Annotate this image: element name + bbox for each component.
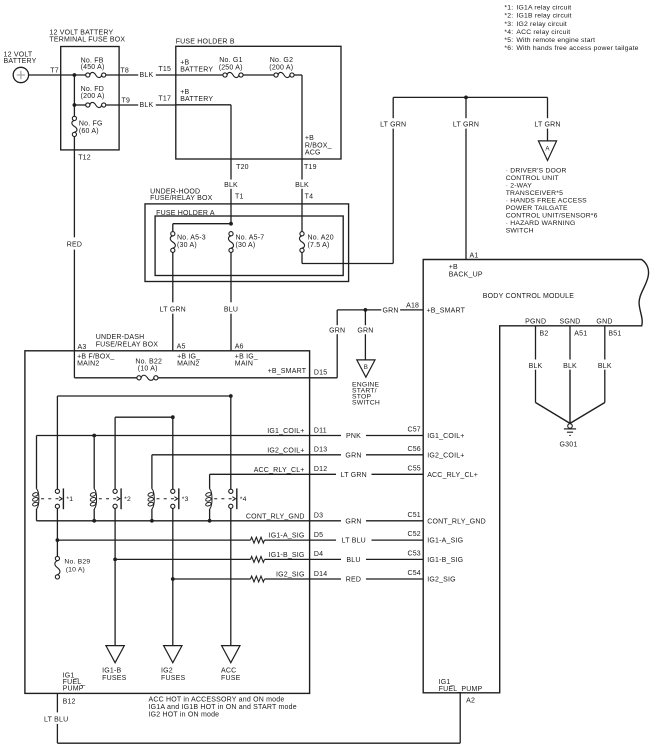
svg-text:IG2_COIL+: IG2_COIL+ (267, 447, 304, 454)
svg-text:*1: *1 (66, 496, 73, 503)
arrow: to ACC fuse (221, 646, 241, 682)
svg-text:BLK: BLK (598, 363, 612, 370)
svg-text:ACC: ACC (221, 668, 236, 675)
wire: T1 bus to fuse A5-3 (173, 224, 231, 232)
pin labels T20 and T19 (236, 164, 317, 171)
svg-text:· 2-WAY: · 2-WAY (506, 182, 533, 189)
connector B (engine start/stop switch) (352, 360, 380, 407)
svg-text:(30 A): (30 A) (236, 242, 256, 249)
svg-text:C53: C53 (407, 551, 420, 558)
label: +B F/BOX_MAIN2 (A3 function) (77, 354, 114, 368)
label: +B_SMART (pin A18 function) (427, 307, 466, 314)
junction: rail on BLU feed (229, 394, 233, 398)
svg-text:A2: A2 (466, 698, 475, 705)
pin label A2 (466, 698, 475, 705)
pin label T1 (235, 194, 244, 201)
wire: fuse FG output through T12, RED, down to A3 (67, 137, 91, 351)
svg-text:A5: A5 (177, 344, 186, 351)
svg-text:IG1A relay circuit: IG1A relay circuit (516, 5, 571, 12)
fuse B22 (10 A) (135, 358, 162, 380)
svg-text:G301: G301 (560, 442, 578, 449)
svg-text:BLK: BLK (529, 363, 543, 370)
svg-text:No. B29: No. B29 (64, 559, 90, 566)
label: +B BATTERY (T17 input) (180, 89, 213, 103)
svg-text:FUSE: FUSE (221, 675, 241, 682)
wire: IG1_COIL+ rail to D11 (37, 435, 310, 437)
svg-text:T1: T1 (235, 194, 244, 201)
svg-text:(200 A): (200 A) (81, 93, 105, 100)
wire: A20 output right and up to LT GRN rail (302, 97, 406, 263)
svg-text:FUSE/RELAY BOX: FUSE/RELAY BOX (96, 341, 159, 348)
svg-text:*3: *3 (182, 496, 189, 503)
svg-text:LT GRN: LT GRN (453, 121, 479, 128)
box: under-dash fuse/relay box (25, 334, 310, 694)
svg-text:IG1-B_SIG: IG1-B_SIG (427, 557, 463, 564)
svg-text:12 VOLT BATTERY: 12 VOLT BATTERY (49, 29, 113, 36)
relay *1 contact (41, 488, 73, 509)
svg-text:*5:: *5: (504, 37, 513, 44)
wire: battery to T7 (fuse box input) (29, 74, 61, 76)
svg-text:T7: T7 (50, 67, 59, 74)
svg-text:D15: D15 (314, 369, 327, 376)
wire: IG2_SIG rail to D14 with sense resistor (173, 576, 310, 582)
svg-text:BATTERY: BATTERY (180, 66, 213, 73)
wire: +B IG_MAIN rail to relay *1 contact (57, 396, 230, 489)
wire: T19 to T4, BLK (295, 159, 309, 232)
svg-text:(30 A): (30 A) (177, 242, 197, 249)
relay *3 contact (157, 488, 189, 509)
junction: T7 bus node (73, 73, 77, 77)
ground G301 (560, 424, 578, 449)
svg-text:IG2 HOT in ON mode: IG2 HOT in ON mode (149, 712, 220, 719)
svg-text:IG2_COIL+: IG2_COIL+ (427, 452, 464, 459)
wire: fuse FB output to T8/T15, BLK (106, 66, 176, 79)
svg-text:LT GRN: LT GRN (534, 121, 560, 128)
wire: IG2_COIL+ C56 interconnect, GRN (310, 446, 465, 459)
svg-text:D12: D12 (314, 466, 327, 473)
wire: CONT_RLY_GND rail (coil returns) to D3 (37, 520, 310, 522)
pin label A1 (470, 252, 479, 259)
svg-text:IG2: IG2 (161, 668, 173, 675)
relay *4 contact (214, 488, 246, 509)
svg-text:TERMINAL FUSE BOX: TERMINAL FUSE BOX (49, 36, 125, 43)
svg-text:ACC HOT in ACCESSORY and ON mo: ACC HOT in ACCESSORY and ON mode (149, 696, 285, 703)
svg-text:(10 A): (10 A) (66, 566, 85, 573)
svg-text:LT GRN: LT GRN (341, 472, 367, 479)
wire: ACC_RLY_CL+ C55 interconnect, LT GRN (310, 465, 479, 478)
svg-text:BLU: BLU (224, 306, 238, 313)
svg-text:T9: T9 (122, 97, 131, 104)
arrow: to IG2 fuses (161, 646, 185, 682)
wire: IG1-A_SIG rail to D5 with sense resistor (57, 537, 309, 543)
svg-text:D11: D11 (314, 427, 327, 434)
svg-text:T20: T20 (236, 164, 249, 171)
svg-text:GRN: GRN (329, 328, 345, 335)
pin labels PGND SGND GND on BCM (525, 318, 612, 325)
svg-text:A3: A3 (78, 344, 87, 351)
pin labels D11 D13 D12 D3 D5 D4 D14 (314, 427, 327, 578)
svg-text:T19: T19 (304, 164, 317, 171)
fuse box: 12 volt battery terminal fuse box (49, 29, 125, 150)
svg-text:R/BOX_: R/BOX_ (305, 142, 332, 149)
wire: IG1-B_SIG C53 interconnect, BLU (310, 551, 464, 564)
svg-text:A6: A6 (235, 344, 244, 351)
svg-text:(250 A): (250 A) (219, 64, 243, 71)
junction: coil *2 tap (92, 434, 96, 438)
wire: A5-7 output down to A6, BLU (224, 252, 238, 350)
svg-text:A18: A18 (406, 302, 419, 309)
pin label A18 (406, 302, 419, 309)
junction: IG1-A_SIG tap (56, 538, 60, 542)
label: IG1_FUEL_PUMP (BCM pin A2 function) (439, 679, 483, 693)
svg-text:T17: T17 (158, 96, 171, 103)
svg-text:B: B (364, 364, 368, 371)
svg-text:CONT_RLY_GND: CONT_RLY_GND (246, 513, 305, 520)
svg-text:IG1A and IG1B HOT in ON and ST: IG1A and IG1B HOT in ON and START mode (149, 704, 297, 711)
note: hot-in-mode legend (149, 696, 297, 718)
junctions: coil return taps (92, 519, 211, 523)
svg-text:D4: D4 (314, 551, 323, 558)
svg-text:LT GRN: LT GRN (380, 121, 406, 128)
svg-text:BLK: BLK (295, 182, 309, 189)
note list: driver's door control unit destinations (506, 167, 598, 234)
fuse G2 (200 A) (269, 57, 294, 78)
pin label T7 (50, 67, 59, 74)
svg-text:LT BLU: LT BLU (44, 716, 68, 723)
svg-text:POWER TAILGATE: POWER TAILGATE (506, 205, 568, 212)
svg-text:C51: C51 (407, 512, 420, 519)
svg-text:FUSE HOLDER A: FUSE HOLDER A (156, 210, 215, 217)
fuse A5-3 (30 A) (170, 232, 206, 253)
svg-text:With remote engine start: With remote engine start (516, 37, 595, 44)
svg-text:(60 A): (60 A) (79, 128, 99, 135)
fuse A5-7 (30 A) (228, 232, 264, 253)
wire: fuse FD output to T9/T17, BLK (106, 96, 176, 110)
svg-text:+B: +B (305, 135, 314, 142)
svg-text:No. G2: No. G2 (270, 57, 293, 64)
wire: CONT_RLY_GND C51 interconnect, GRN (310, 512, 486, 525)
relay *4 coil (205, 474, 212, 521)
svg-text:A51: A51 (574, 331, 587, 338)
svg-text:No. A20: No. A20 (308, 235, 334, 242)
wire: rail down to connector A, LT GRN (534, 97, 560, 140)
wire: T17 row down to T20 (176, 105, 231, 159)
svg-text:BLU: BLU (346, 557, 360, 564)
svg-text:(450 A): (450 A) (81, 64, 105, 71)
svg-text:BLK: BLK (140, 102, 154, 109)
svg-text:BACK_UP: BACK_UP (449, 271, 483, 278)
svg-text:D3: D3 (314, 513, 323, 520)
svg-text:*3:: *3: (504, 21, 513, 28)
wire: rail down to BCM pin A1, LT GRN (453, 97, 479, 259)
svg-text:SWITCH: SWITCH (352, 399, 380, 406)
label: +B R/BOX_ACG (305, 135, 332, 156)
svg-text:No. FG: No. FG (79, 120, 103, 127)
svg-text:BATTERY: BATTERY (180, 96, 213, 103)
label: +B BATTERY (T15 input) (180, 60, 213, 74)
wire: relay *4 contact output down to ACC fuse (230, 508, 232, 645)
pin label B12 (63, 699, 76, 706)
svg-text:With hands free access power t: With hands free access power tailgate (516, 45, 638, 52)
wire: branch down to connector B, GRN (357, 310, 373, 360)
svg-text:B2: B2 (540, 331, 549, 338)
svg-text:D13: D13 (314, 447, 327, 454)
svg-text:*1:: *1: (504, 5, 513, 12)
svg-text:C55: C55 (407, 465, 420, 472)
svg-text:IG2 relay circuit: IG2 relay circuit (516, 21, 567, 28)
svg-text:C57: C57 (407, 427, 420, 434)
svg-text:C54: C54 (407, 570, 420, 577)
label: IG1 FUEL PUMP (B12 function) (63, 672, 86, 692)
svg-text:GND: GND (596, 318, 612, 325)
module: body control module outline (423, 260, 648, 693)
svg-text:FUEL_PUMP: FUEL_PUMP (439, 686, 483, 693)
svg-text:C56: C56 (407, 446, 420, 453)
svg-text:PGND: PGND (525, 318, 546, 325)
wire: GND B51 to ground, BLK (570, 326, 612, 424)
wire: IG1-A_SIG C52 interconnect, LT BLU (310, 531, 464, 544)
svg-text:A1: A1 (470, 252, 479, 259)
svg-text:RED: RED (67, 242, 82, 249)
relay *3 coil (148, 455, 155, 521)
wire: T15 row to fuse G1 (176, 74, 223, 76)
wire: BCM A2 to under-dash B12 (fuel pump IG1), LT BLU (44, 693, 460, 743)
wire: BLU A6 feed down to relay *4 contact (230, 396, 232, 489)
pin labels A3 A5 A6 (78, 344, 244, 351)
label: +B IG_MAIN (A6 function) (235, 354, 258, 368)
wire: SGND A51 to ground, BLK (563, 326, 577, 424)
svg-text:D14: D14 (314, 571, 327, 578)
svg-text:(10 A): (10 A) (138, 366, 158, 373)
labels: under-dash D-pin functions (246, 428, 305, 579)
svg-text:ACC relay circuit: ACC relay circuit (516, 29, 570, 36)
svg-text:SWITCH: SWITCH (506, 227, 534, 234)
svg-text:· DRIVER'S DOOR: · DRIVER'S DOOR (506, 167, 567, 174)
svg-text:· HANDS FREE ACCESS: · HANDS FREE ACCESS (506, 197, 587, 204)
junction: IG1-B_SIG tap (113, 558, 117, 562)
svg-text:FUSE HOLDER B: FUSE HOLDER B (176, 39, 235, 46)
relay *2 contact (99, 488, 131, 509)
svg-text:(200 A): (200 A) (269, 64, 293, 71)
wire: ACC_RLY_CL+ rail to D12 (210, 473, 310, 475)
svg-text:T8: T8 (120, 67, 129, 74)
svg-text:No. A5-3: No. A5-3 (177, 235, 206, 242)
svg-text:+B IG_: +B IG_ (235, 354, 258, 361)
svg-text:CONT_RLY_GND: CONT_RLY_GND (427, 518, 486, 525)
junction: IG2_SIG tap (171, 577, 175, 581)
arrow: to IG1-B fuses (102, 646, 126, 682)
label: +B BACK_UP (pin A1 function) (449, 264, 483, 278)
svg-text:BLK: BLK (140, 72, 154, 79)
svg-text:MAIN: MAIN (235, 361, 253, 368)
relay *2 coil (90, 436, 97, 521)
svg-text:A: A (545, 145, 550, 152)
svg-text:PUMP: PUMP (63, 686, 84, 693)
svg-text:B12: B12 (63, 699, 76, 706)
wire: +B IG_MAIN2 rail to relay *2 contact (115, 417, 173, 489)
svg-text:IG1B relay circuit: IG1B relay circuit (516, 13, 571, 20)
svg-text:IG2_SIG: IG2_SIG (276, 572, 305, 579)
fuse G1 (250 A) (219, 57, 243, 78)
svg-text:IG1-A_SIG: IG1-A_SIG (427, 538, 463, 545)
wire: IG2_SIG C54 interconnect, RED (310, 570, 456, 583)
svg-text:RED: RED (346, 577, 361, 584)
svg-text:ACC_RLY_CL+: ACC_RLY_CL+ (427, 472, 478, 479)
svg-text:FUSES: FUSES (161, 675, 185, 682)
wire: G2 output down to T19 (294, 75, 302, 159)
svg-text:· HAZARD WARNING: · HAZARD WARNING (506, 220, 576, 227)
svg-text:UNDER-DASH: UNDER-DASH (96, 334, 145, 341)
wire: fuse B22 output to D15 (158, 377, 310, 379)
svg-text:ACG: ACG (305, 150, 321, 157)
wire: IG1-B_SIG rail to D4 with sense resistor (115, 557, 310, 563)
svg-text:T15: T15 (158, 66, 171, 73)
svg-text:GRN: GRN (383, 308, 399, 315)
wire: relay *1 contact output down (IG1-A) (56, 508, 58, 540)
wire: IG1_COIL+ C57 interconnect, PNK (310, 427, 465, 440)
fuse B29 (10 A) (55, 540, 91, 579)
svg-text:+B_SMART: +B_SMART (268, 368, 307, 375)
svg-text:T4: T4 (305, 194, 314, 201)
svg-text:CONTROL UNIT/SENSOR*6: CONTROL UNIT/SENSOR*6 (506, 212, 598, 219)
svg-text:IG1-A_SIG: IG1-A_SIG (269, 533, 305, 540)
svg-text:IG1-B: IG1-B (102, 668, 121, 675)
label: +B_SMART (D15 function) (268, 368, 307, 375)
battery: 12 volt battery positive terminal (4, 51, 37, 82)
fuse FD (200 A) (74, 86, 105, 107)
svg-text:*2: *2 (124, 496, 131, 503)
wire: T20 to T1, BLK (224, 159, 238, 224)
svg-text:*6:: *6: (504, 45, 513, 52)
svg-text:C52: C52 (407, 531, 420, 538)
svg-text:GRN: GRN (345, 518, 361, 525)
svg-text:IG1_: IG1_ (439, 679, 455, 686)
junction: T1 / A5-7 node (229, 222, 233, 226)
fuse box: fuse holder B (176, 39, 341, 159)
junction: rail to A1 drop (464, 96, 468, 100)
wire: A3 feed down to fuse B22 row (74, 351, 136, 378)
svg-text:IG1-B_SIG: IG1-B_SIG (269, 552, 305, 559)
svg-text:BATTERY: BATTERY (4, 58, 37, 65)
junction: FD row node (73, 103, 77, 107)
junction: +B_SMART branch to engine start/stop switch (364, 308, 368, 312)
svg-text:SGND: SGND (559, 318, 580, 325)
fuse A20 (7.5 A) (299, 232, 333, 253)
fuse FG (60 A) (72, 105, 103, 136)
svg-text:BLK: BLK (224, 182, 238, 189)
svg-text:TRANSCEIVER*5: TRANSCEIVER*5 (506, 190, 563, 197)
svg-text:*2:: *2: (504, 13, 513, 20)
svg-text:No. B22: No. B22 (135, 358, 162, 365)
wire: relay *2 contact output down to IG1-B fuses (114, 508, 116, 645)
svg-text:D5: D5 (314, 532, 323, 539)
svg-text:FUSES: FUSES (102, 675, 126, 682)
wire: G1 to G2 (243, 74, 274, 76)
svg-text:+B_SMART: +B_SMART (427, 307, 466, 314)
junction: rail on LT GRN feed (171, 415, 175, 419)
note list: relay circuit footnotes (504, 5, 638, 53)
wire: IG2_COIL+ rail to D13 (152, 454, 310, 456)
svg-text:FUSE/RELAY BOX: FUSE/RELAY BOX (150, 195, 213, 202)
svg-text:GRN: GRN (345, 452, 361, 459)
fuse FB (450 A) (81, 57, 106, 77)
svg-text:ACC_RLY_CL+: ACC_RLY_CL+ (254, 467, 305, 474)
svg-text:LT GRN: LT GRN (160, 306, 186, 313)
wire: D15 +B_SMART over to BCM A18, GRN (310, 308, 424, 378)
wire: T7 row into fuse FB (61, 74, 86, 76)
pin label T4 (305, 194, 314, 201)
svg-text:No. A5-7: No. A5-7 (236, 235, 265, 242)
svg-text:BLK: BLK (563, 363, 577, 370)
pin label D15 (314, 369, 327, 376)
svg-text:MAIN2: MAIN2 (77, 361, 99, 368)
box: under-hood fuse/relay box (145, 189, 349, 282)
svg-text:No. G1: No. G1 (219, 57, 242, 64)
svg-text:(7.5 A): (7.5 A) (308, 242, 330, 249)
wire: top distribution rail (LT GRN) (393, 96, 547, 98)
svg-text:+B: +B (449, 264, 458, 271)
svg-text:CONTROL UNIT: CONTROL UNIT (506, 175, 559, 182)
svg-text:*4: *4 (240, 496, 247, 503)
label: +B IG_MAIN2 (A5 function) (177, 354, 200, 368)
svg-text:PNK: PNK (346, 433, 361, 440)
svg-text:*4:: *4: (504, 29, 513, 36)
svg-text:B51: B51 (608, 331, 621, 338)
svg-text:IG1_COIL+: IG1_COIL+ (427, 433, 464, 440)
wire: LT GRN A5 feed down to relay *3 contact (172, 417, 174, 489)
svg-text:+B IG_: +B IG_ (177, 354, 200, 361)
wire: A5-3 output down to A5, LT GRN (160, 252, 186, 350)
svg-text:+B F/BOX_: +B F/BOX_ (77, 354, 114, 361)
svg-text:GRN: GRN (357, 328, 373, 335)
svg-text:IG1_COIL+: IG1_COIL+ (267, 428, 304, 435)
svg-text:IG2_SIG: IG2_SIG (427, 577, 456, 584)
wire: PGND B2 to ground, BLK (529, 326, 570, 424)
pin labels B2 A51 B51 (540, 331, 622, 338)
svg-text:BODY CONTROL MODULE: BODY CONTROL MODULE (483, 293, 574, 300)
wire: bus T7 down to FD row (73, 75, 75, 105)
svg-text:LT BLU: LT BLU (342, 538, 366, 545)
box: fuse holder A (155, 210, 343, 276)
wire: relay *3 contact output down to IG2 fuses (172, 508, 174, 645)
svg-text:MAIN2: MAIN2 (177, 361, 199, 368)
connector A (off-page to driver's door control unit) (538, 141, 556, 161)
relay *1 coil (32, 436, 39, 521)
svg-text:T12: T12 (78, 155, 91, 162)
